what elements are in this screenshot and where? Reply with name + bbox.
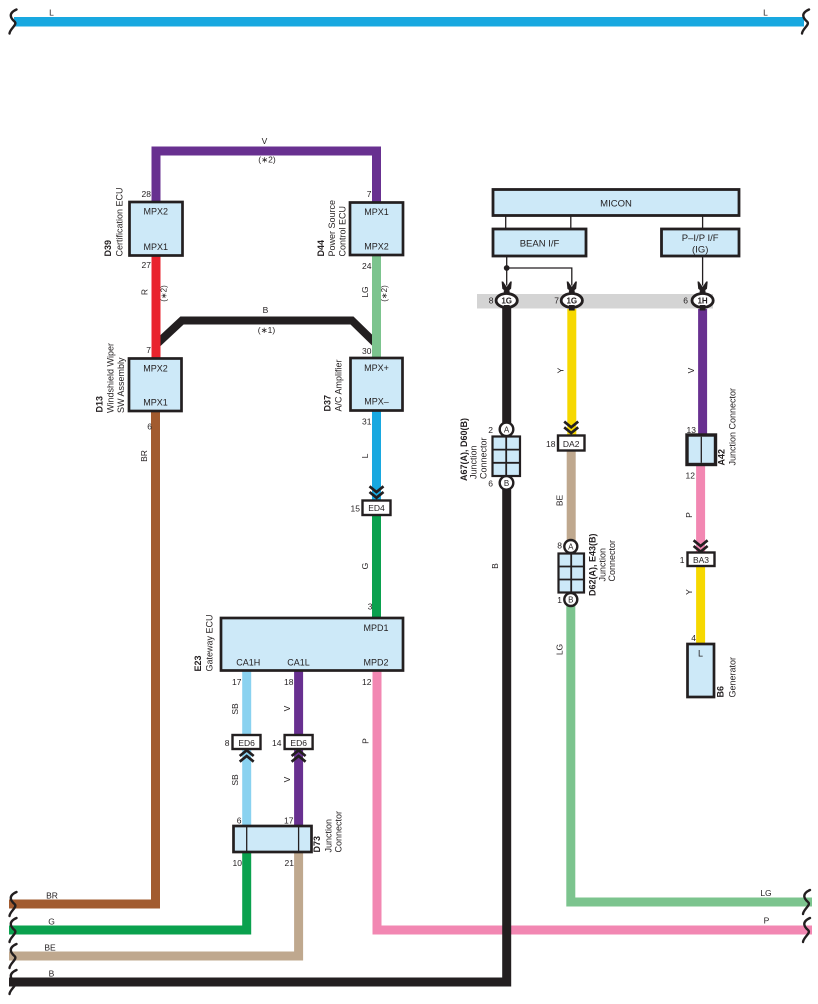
svg-text:A67(A), D60(B): A67(A), D60(B): [459, 418, 469, 481]
wire B 1G pin8 via A67/D60 to left edge: [9, 303, 507, 982]
svg-text:D39: D39: [103, 240, 113, 257]
svg-text:Junction: Junction: [469, 445, 479, 479]
svg-text:MPX1: MPX1: [144, 242, 169, 252]
svg-text:LG: LG: [760, 888, 771, 898]
junction dot: [504, 265, 510, 271]
svg-text:G: G: [48, 917, 55, 927]
svg-text:(∗2): (∗2): [160, 285, 169, 302]
svg-text:SW Assembly: SW Assembly: [116, 357, 126, 413]
svg-text:27: 27: [142, 260, 152, 270]
svg-text:15: 15: [351, 504, 361, 514]
svg-text:18: 18: [546, 439, 556, 449]
svg-text:ED4: ED4: [368, 503, 385, 513]
svg-text:Control ECU: Control ECU: [338, 206, 348, 257]
svg-text:A42: A42: [717, 449, 727, 466]
svg-text:(∗1): (∗1): [258, 325, 276, 335]
svg-text:Y: Y: [684, 589, 694, 595]
svg-text:13: 13: [687, 425, 697, 435]
svg-text:Junction: Junction: [324, 819, 334, 853]
wire MICON to BEAN I/F (left): [505, 216, 507, 230]
junction connector A42: [687, 435, 716, 465]
terminal 1G pin 8: [496, 294, 517, 308]
svg-text:Gateway ECU: Gateway ECU: [205, 614, 215, 671]
wire R (*2) D39 pin27 to D13 pin7: [152, 255, 161, 360]
wire BE DA2 to D62/E43 pinA: [567, 451, 576, 558]
svg-text:L: L: [763, 8, 768, 18]
bus bar band (gray): [477, 294, 713, 309]
svg-text:SB: SB: [230, 703, 240, 715]
svg-text:ED6: ED6: [290, 738, 307, 748]
junction connector D73: [234, 826, 312, 852]
wire Y 1G pin7 to DA2: [567, 309, 576, 436]
svg-text:MPX+: MPX+: [364, 363, 389, 373]
svg-text:BEAN I/F: BEAN I/F: [520, 239, 560, 250]
svg-text:Junction: Junction: [598, 548, 608, 582]
wire B (*1) D13 pin7 to D37 pin30: [160, 317, 372, 347]
arrow into terminal 1G pin7: [567, 282, 577, 293]
svg-text:31: 31: [362, 417, 372, 427]
svg-text:L: L: [698, 649, 703, 659]
svg-text:4: 4: [691, 633, 696, 643]
terminal 1G pin 7: [561, 294, 582, 308]
svg-text:ED6: ED6: [238, 738, 255, 748]
wire V E23 pin18 to D73 pin17: [294, 670, 303, 827]
svg-text:BE: BE: [44, 943, 56, 953]
svg-text:28: 28: [142, 189, 152, 199]
svg-text:7: 7: [367, 189, 372, 199]
cut mark BR bus: [10, 892, 17, 916]
svg-text:Y: Y: [555, 367, 565, 373]
svg-text:Connector: Connector: [607, 540, 617, 582]
connector ED6 (SB wire): [233, 735, 261, 749]
svg-text:MPX2: MPX2: [143, 364, 168, 374]
svg-text:G: G: [360, 563, 370, 570]
svg-text:D62(A), E43(B): D62(A), E43(B): [588, 533, 598, 596]
arrow into DA2: [564, 422, 578, 433]
junction connector D62(A),E43(B) grid: [559, 554, 585, 593]
svg-text:B6: B6: [716, 686, 726, 698]
connector ED6 (V wire): [285, 735, 313, 749]
svg-text:Certification ECU: Certification ECU: [115, 187, 125, 256]
wire BEAN I/F to 1G terminals: [507, 256, 572, 286]
junction D62/E43 terminal A: [564, 540, 577, 553]
svg-text:6: 6: [488, 479, 493, 489]
svg-text:MPX2: MPX2: [364, 242, 389, 252]
svg-text:Connector: Connector: [479, 437, 489, 479]
svg-text:CA1H: CA1H: [236, 658, 260, 668]
junction A67/D60 terminal A: [500, 423, 514, 437]
svg-text:A: A: [504, 425, 510, 434]
svg-text:V: V: [282, 705, 292, 711]
svg-text:14: 14: [272, 738, 282, 748]
svg-text:8: 8: [489, 296, 494, 306]
generator B6: [688, 644, 715, 697]
D62/E43 grid lines: [559, 554, 585, 593]
arrow into ED6 (V): [292, 750, 306, 761]
cut mark B bus: [10, 970, 17, 994]
svg-text:8: 8: [225, 738, 230, 748]
svg-text:2: 2: [488, 425, 493, 435]
svg-text:P: P: [764, 916, 770, 926]
svg-text:DA2: DA2: [563, 439, 580, 449]
wire P A42 pin12 to BA3: [696, 464, 705, 553]
svg-text:12: 12: [362, 677, 372, 687]
D73 cell dividers: [247, 826, 299, 852]
svg-text:SB: SB: [230, 774, 240, 786]
svg-text:V: V: [262, 136, 268, 146]
svg-text:L: L: [49, 7, 54, 17]
svg-text:MPX2: MPX2: [144, 207, 169, 217]
svg-text:MPX1: MPX1: [143, 398, 168, 408]
svg-text:8: 8: [557, 541, 562, 551]
svg-text:R: R: [140, 289, 150, 295]
wire LG D62/E43 pinB to right edge: [571, 600, 812, 902]
connector ED4: [363, 501, 391, 516]
svg-text:10: 10: [233, 858, 243, 868]
svg-text:7: 7: [146, 345, 151, 355]
svg-text:CA1L: CA1L: [287, 658, 310, 668]
svg-text:Windshield Wiper: Windshield Wiper: [106, 343, 116, 413]
svg-text:12: 12: [686, 471, 696, 481]
svg-text:B: B: [49, 969, 55, 979]
wire Y BA3 to B6 pin4: [696, 566, 705, 645]
wire V (*2) D39 pin28 to D44 pin7: [156, 151, 377, 203]
svg-text:1: 1: [680, 555, 685, 565]
ECU D44 Power Source Control ECU: [350, 203, 403, 256]
svg-text:P–I/P I/F: P–I/P I/F: [682, 233, 719, 244]
connector DA2: [558, 436, 585, 451]
ECU D13 Windshield Wiper SW Assembly: [129, 359, 182, 412]
svg-text:6: 6: [237, 816, 242, 826]
wire G D73 pin10 to left edge: [9, 852, 247, 931]
svg-text:MPD2: MPD2: [363, 658, 388, 668]
svg-text:V: V: [686, 367, 696, 373]
svg-text:18: 18: [284, 677, 294, 687]
svg-text:B: B: [490, 563, 500, 569]
A42 cell divider: [700, 437, 702, 463]
junction A67/D60 terminal B: [500, 476, 514, 490]
svg-text:MPD1: MPD1: [363, 623, 388, 633]
A67/D60 grid lines: [493, 437, 521, 477]
svg-text:6: 6: [147, 422, 152, 432]
arrow into terminal 1H pin6: [698, 282, 708, 293]
svg-text:Power Source: Power Source: [327, 200, 337, 257]
svg-text:A: A: [568, 543, 574, 552]
svg-text:Generator: Generator: [728, 657, 738, 698]
svg-text:Junction Connector: Junction Connector: [727, 388, 737, 466]
svg-text:BA3: BA3: [693, 555, 709, 565]
wire BE D73 pin21 to left edge: [9, 852, 299, 957]
arrow into BA3: [694, 540, 708, 551]
svg-text:L: L: [360, 453, 370, 458]
svg-text:(IG): (IG): [692, 245, 708, 256]
svg-text:21: 21: [285, 858, 295, 868]
svg-text:LG: LG: [360, 286, 370, 297]
arrow into ED4: [370, 486, 384, 497]
wire L D37 pin31 to ED4: [372, 410, 381, 501]
cut mark L bus right: [802, 10, 809, 34]
svg-text:30: 30: [362, 346, 372, 356]
wire MICON to BEAN I/F (right): [570, 216, 572, 230]
svg-text:1: 1: [557, 595, 562, 605]
svg-text:D73: D73: [312, 836, 322, 853]
svg-text:3: 3: [368, 602, 373, 612]
svg-text:1G: 1G: [566, 297, 577, 306]
svg-text:6: 6: [683, 296, 688, 306]
wire MICON to P-I/P I/F: [702, 216, 704, 230]
connector BA3: [688, 553, 715, 567]
svg-text:17: 17: [284, 816, 294, 826]
svg-text:1G: 1G: [501, 297, 512, 306]
wire SB E23 pin17 to D73 pin6: [242, 670, 251, 827]
svg-text:V: V: [282, 776, 292, 782]
wire BR D13 pin6 to left edge: [9, 411, 156, 905]
wire P-I/P I/F to 1H terminal: [702, 256, 704, 286]
junction D62/E43 terminal B: [564, 593, 577, 606]
ECU E23 Gateway ECU: [221, 618, 403, 671]
svg-text:BR: BR: [139, 450, 149, 462]
ECU D39 Certification ECU: [130, 202, 183, 256]
svg-text:(∗2): (∗2): [258, 155, 276, 165]
svg-text:(∗2): (∗2): [380, 285, 389, 302]
svg-text:1H: 1H: [697, 297, 707, 306]
svg-text:A/C Amplifier: A/C Amplifier: [334, 359, 344, 411]
svg-text:B: B: [568, 596, 573, 605]
cut mark LG bus: [803, 890, 810, 914]
wire LG (*2) D44 pin24 to D37 pin30: [372, 255, 381, 360]
cut mark L bus left: [10, 10, 17, 34]
terminal 1H pin 6: [692, 294, 713, 308]
svg-text:D13: D13: [95, 396, 105, 413]
svg-text:LG: LG: [554, 644, 564, 655]
svg-text:D44: D44: [316, 240, 326, 257]
cut mark P bus: [803, 918, 810, 942]
svg-text:BR: BR: [46, 891, 58, 901]
svg-text:MPX1: MPX1: [364, 207, 389, 217]
svg-text:BE: BE: [555, 495, 565, 507]
cut mark BE bus: [10, 944, 17, 968]
junction connector A67(A),D60(B) grid: [493, 437, 521, 477]
svg-text:B: B: [504, 479, 509, 488]
wire V 1H pin6 to A42 pin13: [698, 309, 707, 436]
svg-text:MPX–: MPX–: [364, 397, 389, 407]
svg-text:E23: E23: [193, 655, 203, 671]
svg-text:P: P: [684, 512, 694, 518]
cut mark G bus: [10, 918, 17, 942]
svg-text:24: 24: [362, 261, 372, 271]
IC P-I/P I/F (IG): [662, 229, 740, 256]
svg-text:P: P: [361, 738, 371, 744]
svg-text:D37: D37: [323, 395, 333, 412]
arrow into ED6 (SB): [240, 750, 254, 761]
arrow into terminal 1G pin8: [502, 282, 512, 293]
IC MICON: [493, 190, 739, 216]
svg-text:B: B: [263, 305, 269, 315]
svg-text:17: 17: [232, 677, 242, 687]
IC BEAN I/F: [493, 229, 586, 256]
svg-text:MICON: MICON: [600, 199, 632, 210]
wire P E23 pin12 to right edge: [377, 670, 812, 930]
ECU D37 A/C Amplifier: [351, 358, 403, 411]
wire G ED4 to E23 pin3: [372, 515, 381, 619]
wire L main bus (top): [14, 17, 804, 27]
svg-text:Connector: Connector: [334, 811, 344, 853]
svg-text:7: 7: [554, 296, 559, 306]
